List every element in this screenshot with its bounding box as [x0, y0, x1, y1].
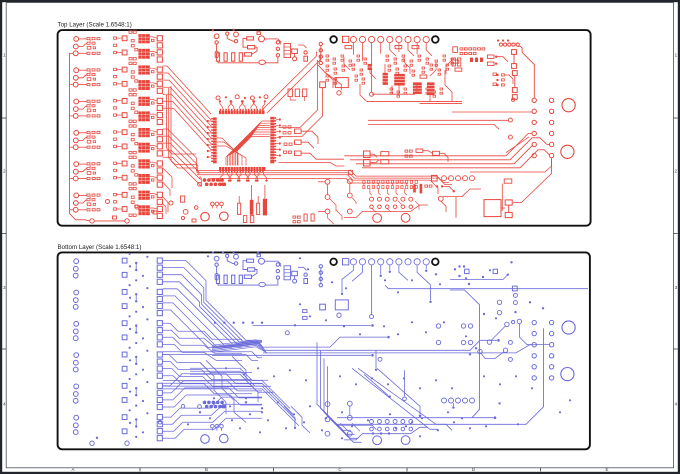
top: resistor array rows [363, 180, 455, 193]
bottom: cap C2 outline [226, 254, 239, 265]
bottom: pad grid bottom center [325, 401, 428, 440]
top: traces connector to U1 [262, 52, 320, 113]
bottom: connector J1 pads [343, 259, 430, 265]
top: bottom left rings [90, 219, 129, 223]
top: via cluster under IC [198, 178, 227, 186]
bottom: band C traces [163, 356, 299, 426]
top: input network group 3 [78, 100, 100, 117]
top: analog resistors [345, 46, 462, 79]
bottom: output fan group 4 [163, 355, 252, 394]
bottom: relay hole pads group 1 [122, 258, 127, 277]
svg-text:A: A [72, 467, 75, 472]
top: IC U1 inner traces [217, 121, 270, 166]
top: output hole pads group 1 [157, 36, 162, 62]
bottom: terminal rings group 5 [73, 384, 78, 403]
top: relay hole pads group 3 [122, 99, 127, 118]
top: output hole pads group 3 [157, 98, 162, 124]
bottom: bottom misc rings [96, 401, 390, 439]
bottom: relay hole pads group 6 [122, 415, 127, 434]
bottom: output fan group 5 [163, 374, 262, 407]
bottom: terminal rings group 1 [73, 259, 78, 278]
bottom: output fan group 3 [163, 323, 242, 360]
top: pad row E1 rings [442, 176, 475, 181]
bottom: cluster side pads [285, 310, 307, 335]
bottom: hole pad K1 [320, 304, 326, 310]
top: input network group 4 [78, 131, 100, 148]
bottom: crystal Y1 pads [211, 424, 224, 430]
top: relay hole pads group 4 [122, 130, 127, 149]
svg-text:B: B [205, 467, 208, 472]
top: output hole pads group 5 [157, 161, 162, 187]
top: driver IC block group 2 [114, 62, 157, 91]
top: bundle drivers lower [163, 129, 202, 186]
top: via chain left of center [319, 42, 322, 64]
bottom: via pair group 4 [129, 347, 149, 376]
bottom: terminal rings group 6 [73, 415, 78, 434]
top: driver IC block group 6 [114, 187, 157, 216]
bottom: via row above ribbon [214, 322, 263, 324]
svg-text:C: C [338, 467, 341, 472]
bottom: vias and rings right mid [483, 286, 544, 315]
top: terminal rings group 6 [73, 193, 78, 212]
top: pad grid bottom center [325, 179, 428, 218]
bottom: pad row E1 rings [442, 398, 475, 403]
top: diode row D1-D4 outlines [216, 53, 278, 65]
bottom: via chain left of center [319, 265, 322, 287]
bottom: output hole pads group 4 [157, 352, 162, 378]
top: driver IC block group 5 [114, 156, 157, 185]
top: grid area wiring [318, 182, 481, 212]
top: cap C4 outline [212, 29, 281, 45]
top: ground bus left [70, 53, 125, 221]
top: large holes right side [561, 99, 575, 159]
top: bypass pads above U1 [216, 95, 268, 109]
bottom: cap C4 outline [212, 251, 281, 267]
top: SMT caps below U1 [238, 185, 267, 223]
top: mounting pads MH3 MH4 [373, 213, 410, 222]
bottom: output hole pads group 1 [157, 258, 162, 284]
bottom: mounting pads MH3 MH4 [373, 436, 410, 445]
top: small rings mid right [508, 98, 514, 139]
top: terminal rings group 3 [73, 99, 78, 118]
bottom: vertical bundle center [317, 342, 362, 442]
top: driver IC block group 1 [114, 31, 157, 60]
bottom: mounting pads MH1 MH2 [201, 434, 228, 443]
top: connector fanout traces [353, 43, 432, 93]
top: connector J1 pads [343, 36, 430, 42]
bottom: connected vias arc [469, 347, 508, 358]
bottom: transistor Q1 cluster outline [276, 263, 307, 284]
bottom: output hole pads group 6 [157, 415, 162, 441]
top: electrolytic cap C1 outline [214, 34, 219, 58]
top: analog traces [318, 57, 462, 103]
frame zone ticks [2, 118, 677, 471]
bottom: pad grid right side [532, 320, 554, 380]
bottom: band B traces [163, 352, 262, 361]
bottom: terminal rings group 2 [73, 290, 78, 309]
bottom: relay hole pads group 2 [122, 290, 127, 309]
top: pad grid right side [532, 98, 554, 158]
bottom: via pair group 2 [129, 284, 149, 313]
bottom: electrolytic cap C1 outline [214, 256, 219, 280]
top layer title [58, 22, 132, 29]
top: driver IC block group 3 [114, 94, 157, 123]
bottom: under grid verticals [375, 350, 407, 400]
bottom: grid path lower [337, 425, 377, 430]
top: misc parts bottom left [106, 196, 199, 222]
top: fanout below U1 [219, 172, 268, 181]
bottom: relay hole pads group 4 [122, 352, 127, 371]
top: output hole pads group 2 [157, 67, 162, 93]
bottom: small rings mid right [508, 321, 514, 362]
top: inductor L1 outline [335, 78, 348, 96]
top: input network group 1 [78, 38, 100, 55]
top: top right cluster parts [452, 47, 508, 66]
top: relay hole pads group 6 [122, 192, 127, 211]
top: rect row above U1 right [288, 89, 307, 101]
svg-text:E: E [606, 467, 609, 472]
bottom: via pair group 1 [129, 253, 149, 282]
top: crystal Y1 pads [211, 202, 224, 208]
bottom: via cluster under IC [198, 401, 227, 409]
bottom: double trace bottom [337, 328, 544, 424]
bottom: ribbon band [212, 340, 267, 353]
top: stub vias beside U1 [207, 118, 281, 158]
bottom: via pair group 3 [129, 315, 149, 344]
bottom: bottom left rings [90, 441, 129, 445]
top: bus traces to pad grid [344, 112, 549, 168]
bottom: output fan group 6 [163, 397, 262, 438]
bottom: via pair group 6 [129, 409, 149, 438]
top: switch S1 pads chain [497, 39, 534, 99]
top: mounting pads MH1 MH2 [201, 212, 228, 221]
top: relay hole pads group 2 [122, 67, 127, 86]
top: input network group 5 [78, 163, 100, 180]
bottom: vias upper right [435, 261, 513, 285]
top: relay hole pads group 1 [122, 36, 127, 55]
top: terminal rings group 4 [73, 130, 78, 149]
bottom: via dots field [187, 251, 571, 439]
top: terminal rings group 2 [73, 68, 78, 87]
top: relay hole pads group 5 [122, 161, 127, 180]
top: pad row E1 square [432, 175, 438, 181]
top: bundle drivers to U1 [163, 66, 212, 150]
bottom: terminal rings group 3 [73, 321, 78, 340]
bottom: fiducial ring right (black) [432, 259, 439, 266]
bottom: knot exit traces [212, 324, 549, 357]
top: SOIC blocks analog [368, 64, 435, 95]
top: vertical feed lines [167, 86, 197, 168]
bottom: resistors R1-R3 outlines [243, 259, 257, 278]
top: hole pad K1 [320, 82, 326, 88]
top: relay K2 outline [484, 200, 512, 218]
bottom: relay hole pads group 5 [122, 383, 127, 402]
top: terminal rings group 1 [73, 37, 78, 56]
top: resistors R1-R3 outlines [243, 37, 257, 56]
bottom: inductor L1 outline [335, 300, 348, 318]
top: IC U1 pin pads [211, 109, 276, 173]
bottom: via pair group 5 [129, 378, 149, 407]
bottom print border [58, 252, 590, 449]
top: transistor Q1 cluster outline [276, 41, 307, 62]
bottom: output fan groups 1-2 [163, 261, 262, 348]
top: pads right mid cluster [493, 73, 513, 86]
bottom: output hole pads group 5 [157, 383, 162, 409]
bottom: diagonals lower right [352, 368, 452, 430]
top: input network group 2 [78, 69, 100, 86]
top: fiducial ring left (black) [330, 36, 337, 43]
bottom: fiducial ring left (black) [330, 259, 337, 266]
svg-text:Top Layer (Scale 1.6548:1): Top Layer (Scale 1.6548:1) [58, 22, 132, 29]
top: analog SMT parts field [326, 55, 454, 97]
top: trace K1 to U1 [279, 60, 323, 137]
top: bottom edge parts [293, 210, 342, 224]
bottom: relay hole pads group 3 [122, 321, 127, 340]
top print border [58, 30, 591, 226]
top: traces to relay K2 [430, 159, 552, 218]
top: parts right of U1 [279, 126, 345, 166]
top: output hole pads group 4 [157, 130, 162, 156]
bottom: terminal rings group 4 [73, 353, 78, 372]
top: hooks to grid [370, 189, 407, 195]
bottom: pad row E1 stem [452, 402, 501, 409]
top: power traces horizontal [196, 170, 452, 184]
bottom: hooks to bottom grid [284, 406, 360, 433]
bottom: diode row D1-D4 outlines [216, 275, 278, 287]
top: via on power line [370, 92, 374, 96]
top: terminal rings group 5 [73, 162, 78, 181]
top: cap C2 outline [226, 32, 239, 43]
top: input network group 6 [78, 194, 100, 211]
bottom: via on power line [370, 315, 374, 319]
top: driver lower stubs [163, 168, 172, 214]
top: driver IC block group 4 [114, 125, 157, 154]
svg-text:Bottom Layer (Scale 1.6548:1): Bottom Layer (Scale 1.6548:1) [58, 244, 142, 251]
bottom: output hole pads group 3 [157, 321, 162, 347]
bottom: grid stems right [436, 319, 532, 345]
bottom: output hole pads group 2 [157, 289, 162, 315]
svg-text:D: D [472, 467, 475, 472]
bottom: connector fanout bottom [341, 265, 432, 303]
top: riser diagonals lower [470, 137, 552, 172]
top: fiducial ring right (black) [432, 36, 439, 43]
top: output hole pads group 6 [157, 192, 162, 218]
bottom: large holes right side [561, 321, 575, 381]
bottom layer title [58, 244, 142, 251]
bottom: region outline right [450, 290, 480, 418]
top: parts left of grid [364, 149, 449, 166]
bottom: long traces center [372, 265, 588, 315]
